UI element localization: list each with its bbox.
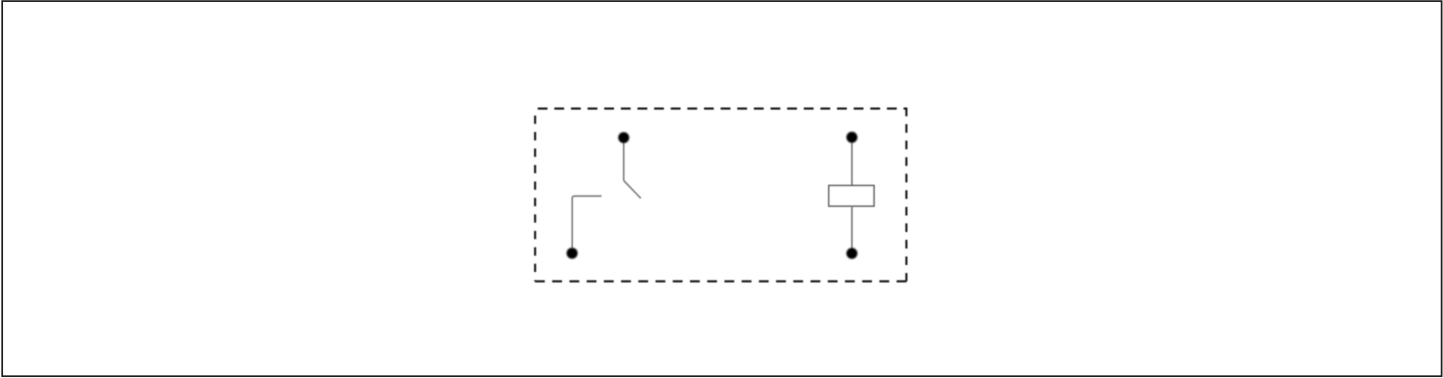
relay dashed enclosure box (535, 108, 907, 282)
node: switch bottom terminal (567, 248, 578, 259)
node: coil top terminal (846, 132, 857, 143)
wire: switch fixed contact L-run to bottom terminal (572, 196, 601, 248)
coil K1 (relay coil rectangle) (829, 186, 874, 207)
node: switch top terminal (618, 132, 629, 143)
wire: coil top lead (851, 141, 853, 186)
wire: coil bottom lead (851, 206, 853, 249)
switch contact SW1 (572, 142, 641, 248)
wire: switch common from top terminal (624, 142, 641, 198)
node: coil bottom terminal (846, 248, 857, 259)
